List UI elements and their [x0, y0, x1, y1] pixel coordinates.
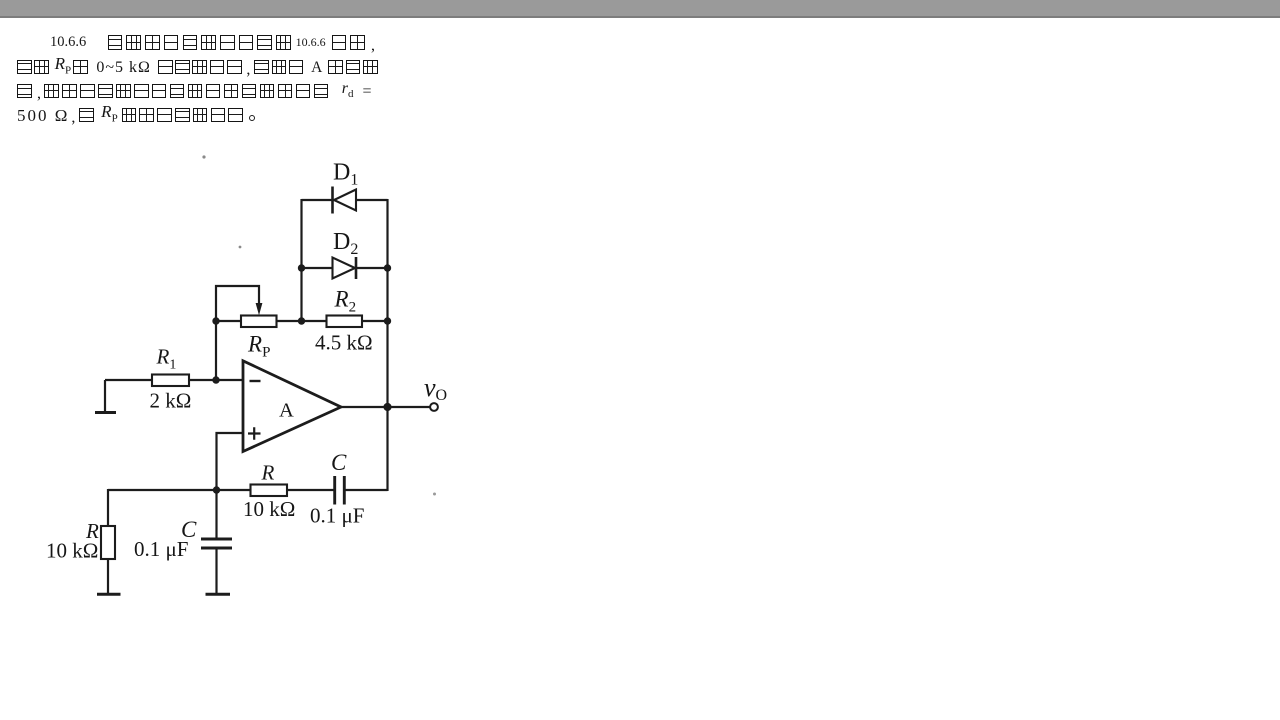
svg-text:D1: D1: [333, 160, 358, 189]
wire: right vertical feedback bus: [386, 199, 388, 491]
svg-text:R: R: [261, 461, 275, 485]
wire: noninverting input: [217, 433, 245, 490]
wire: left mid vertical to inverting node: [215, 321, 217, 380]
resistor R 10k series body: [251, 485, 288, 497]
capacitor C series plates: [335, 476, 345, 505]
svg-text:A: A: [279, 400, 294, 422]
junction: R2 right: [384, 317, 391, 324]
scan speck 2: [239, 246, 242, 249]
junction: D2 right: [384, 264, 391, 271]
wire: op-amp output: [341, 406, 430, 408]
svg-text:R2: R2: [334, 287, 357, 316]
resistor R1 body: [152, 375, 189, 387]
diode D2: [333, 257, 357, 279]
svg-text:vO: vO: [424, 373, 447, 404]
wire: Rp / R2 row: [216, 320, 388, 322]
ground of shunt C: [206, 593, 231, 596]
output terminal circle: [430, 403, 438, 411]
ground of R1: [95, 411, 116, 414]
svg-text:4.5 kΩ: 4.5 kΩ: [315, 331, 373, 355]
Rp wiper arrowhead: [256, 303, 263, 315]
svg-text:2 kΩ: 2 kΩ: [150, 389, 192, 413]
problem text line 4: [17, 108, 255, 123]
svg-text:C: C: [331, 450, 347, 475]
wire: shunt C branch: [215, 490, 217, 593]
scan speck 1: [202, 155, 205, 158]
wire: Rp wiper loop: [216, 286, 259, 321]
junction: bottom RC node: [213, 486, 220, 493]
diode D1: [333, 187, 357, 214]
wire: D1 top row: [302, 199, 388, 201]
wire: left vertical of diode branch: [300, 199, 302, 321]
wire: R1 left leg down: [104, 380, 106, 411]
problem text line 2: [17, 60, 380, 75]
scan speck 3: [433, 493, 436, 496]
svg-text:R1: R1: [156, 345, 177, 373]
wire: bottom RC row: [108, 489, 388, 491]
svg-text:10 kΩ: 10 kΩ: [46, 539, 98, 563]
junction: Rp left: [212, 317, 219, 324]
wire: left shunt R branch: [107, 489, 109, 593]
resistor R2 body: [327, 316, 363, 328]
top gray bar: [0, 0, 1280, 18]
problem text line 1: [50, 35, 379, 50]
junction: inverting node: [212, 376, 219, 383]
resistor R 10k shunt body: [101, 526, 115, 559]
wire: R1 row / inverting input: [105, 379, 244, 381]
svg-text:RP: RP: [247, 332, 270, 361]
svg-text:10 kΩ: 10 kΩ: [243, 497, 295, 521]
op-amp A triangle: [243, 361, 341, 452]
junction: Rp/R2 middle: [298, 317, 305, 324]
wire: D2 row: [302, 267, 388, 269]
problem text line 3: [17, 84, 372, 99]
svg-text:0.1 μF: 0.1 μF: [310, 504, 364, 528]
ground of shunt R: [97, 593, 121, 596]
capacitor C shunt plates: [201, 539, 232, 548]
junction: output node: [383, 403, 391, 411]
potentiometer Rp body: [241, 316, 277, 328]
junction: D2 left: [298, 264, 305, 271]
svg-text:0.1 μF: 0.1 μF: [134, 537, 188, 561]
svg-text:D2: D2: [333, 229, 358, 258]
